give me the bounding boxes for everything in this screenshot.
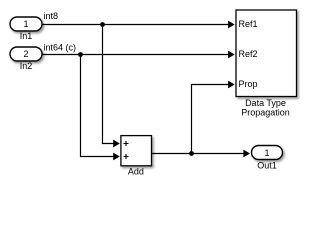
junction on In1 wire <box>100 22 105 27</box>
wire Add output to Out1 <box>152 150 251 158</box>
svg-text:In2: In2 <box>20 61 33 71</box>
wire In2 to Ref2 <box>42 51 235 59</box>
outport Out1 <box>252 146 283 160</box>
wire In1 to Ref1 <box>42 21 235 29</box>
svg-text:Ref2: Ref2 <box>239 49 258 59</box>
svg-text:int8: int8 <box>44 11 59 21</box>
svg-text:1: 1 <box>23 19 28 29</box>
svg-text:Data Type: Data Type <box>245 98 286 108</box>
pin + (second input) <box>124 154 129 159</box>
label Data Type Propagation <box>241 98 290 118</box>
wire In2 branch to Add second input <box>81 55 120 161</box>
block Add U_Add <box>121 136 152 166</box>
junction on Add output wire <box>189 151 194 156</box>
junction on In2 wire <box>78 52 83 57</box>
svg-text:2: 2 <box>23 49 28 59</box>
inport In1 <box>10 17 42 31</box>
svg-text:Ref1: Ref1 <box>239 19 258 29</box>
svg-text:int64 (c): int64 (c) <box>44 43 77 53</box>
svg-text:Propagation: Propagation <box>241 107 290 117</box>
svg-text:Prop: Prop <box>239 79 258 89</box>
svg-text:In1: In1 <box>20 31 33 41</box>
svg-text:Out1: Out1 <box>257 161 277 171</box>
wire In1 branch to Add first input <box>103 25 120 148</box>
svg-text:Add: Add <box>128 167 144 177</box>
block Data Type Propagation <box>236 10 297 97</box>
wire junction to Prop input <box>192 81 235 154</box>
pin + (first input) <box>124 141 129 146</box>
svg-text:1: 1 <box>264 148 269 158</box>
inport In2 <box>10 47 42 61</box>
